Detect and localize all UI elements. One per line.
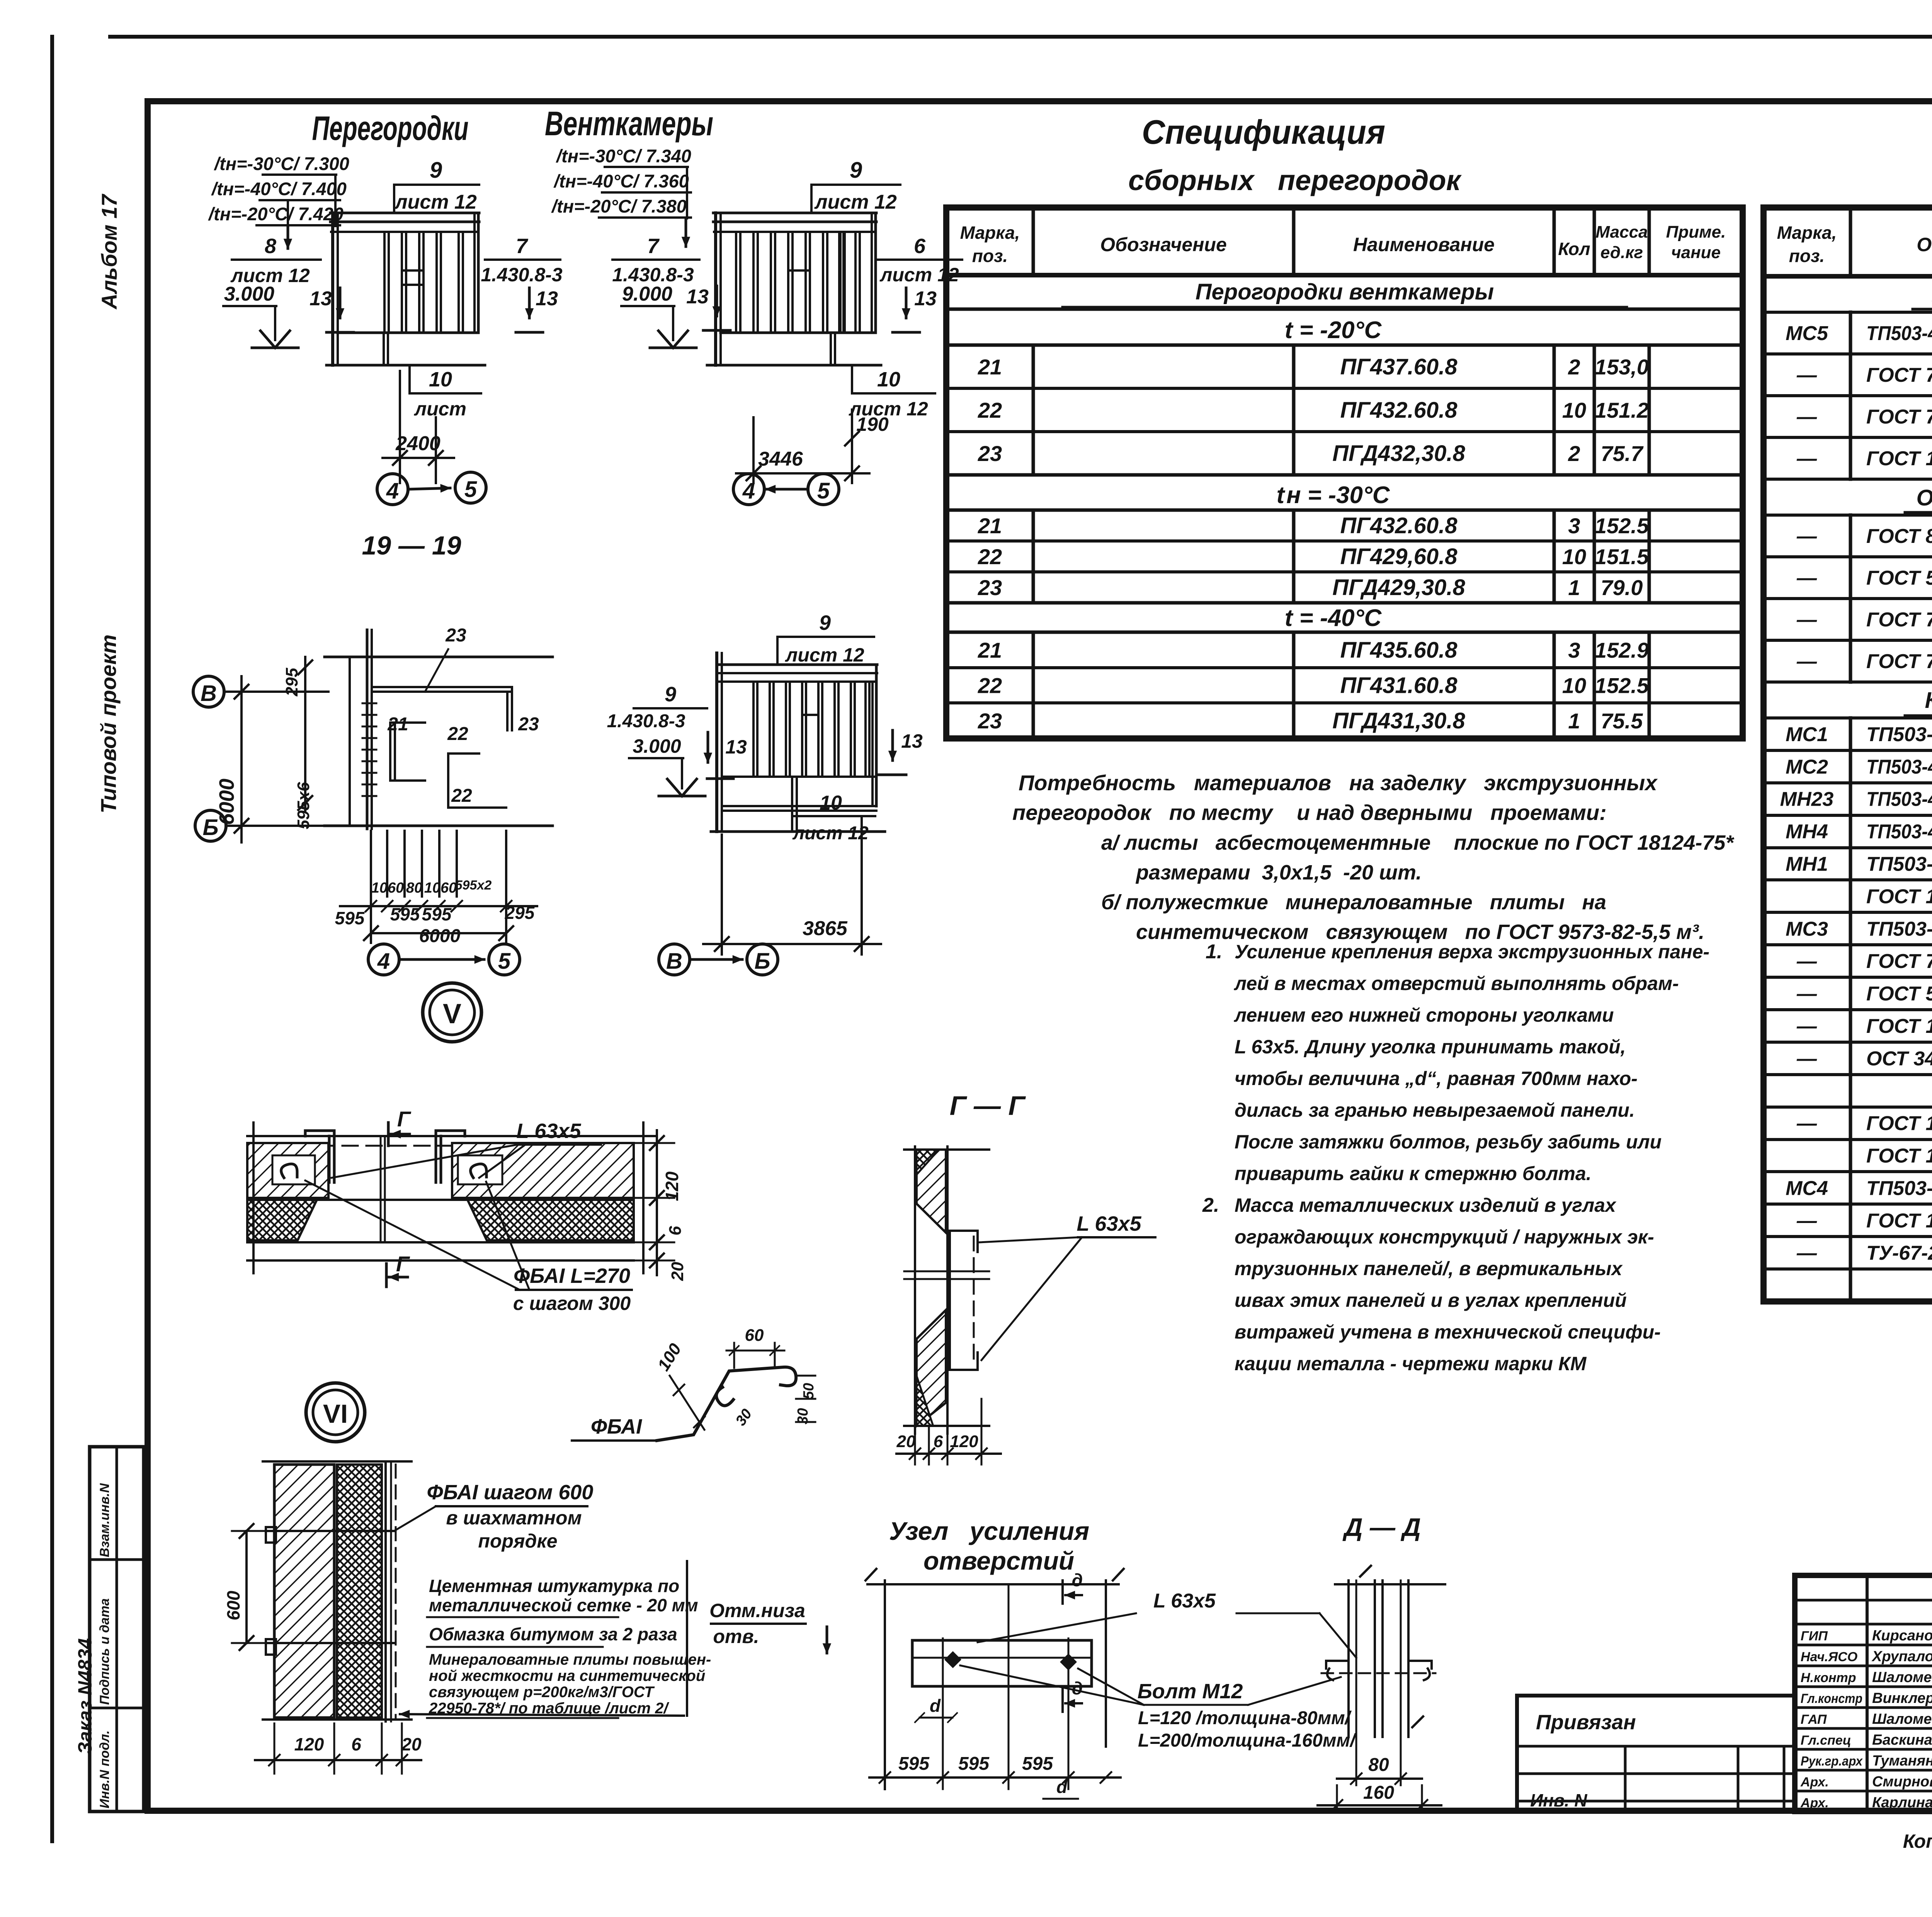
svg-text:ТП503-4-45.87-КЖИ-010-01: ТП503-4-45.87-КЖИ-010-01 (1866, 821, 1932, 843)
svg-text:/tн=-40°C/ 7.400: /tн=-40°C/ 7.400 (211, 179, 347, 199)
svg-text:Узел усиления: Узел усиления (889, 1517, 1089, 1545)
svg-text:3446: 3446 (758, 448, 803, 470)
svg-text:21: 21 (978, 514, 1002, 538)
svg-text:120: 120 (294, 1734, 324, 1754)
svg-text:1.: 1. (1206, 941, 1222, 963)
svg-text:Приме.: Приме. (1666, 223, 1726, 242)
svg-text:ПГД432,30.8: ПГД432,30.8 (1332, 441, 1465, 466)
svg-text:Марка,: Марка, (960, 223, 1020, 243)
svg-text:120: 120 (950, 1432, 978, 1451)
svg-text:ГОСТ 11371-78: ГОСТ 11371-78 (1866, 1015, 1932, 1038)
level 3.000 (223, 283, 298, 348)
svg-text:2: 2 (1568, 355, 1580, 379)
svg-text:—: — (1796, 609, 1817, 631)
wall section: panel with hatches (263, 1461, 412, 1721)
svg-text:—: — (1796, 1209, 1817, 1232)
mark 13 left (310, 287, 354, 332)
svg-text:отв.: отв. (713, 1626, 759, 1647)
svg-text:7: 7 (647, 235, 660, 258)
19-19 right elevation: level marks (607, 683, 747, 796)
19-19 right elevation: body (711, 653, 885, 832)
svg-text:13: 13 (725, 736, 747, 758)
svg-text:4: 4 (742, 478, 755, 503)
19-19 right elevation: dim 3865 (703, 816, 881, 954)
svg-text:Кирсанов: Кирсанов (1872, 1628, 1932, 1644)
svg-text:После затяжки болтов, резьб: После затяжки болтов, резьбу забить или (1235, 1131, 1662, 1153)
svg-text:23: 23 (445, 625, 466, 646)
svg-text:Заказ N4834: Заказ N4834 (74, 1638, 96, 1754)
svg-text:ГОСТ 1144-80*: ГОСТ 1144-80* (1866, 1112, 1932, 1135)
svg-text:9: 9 (850, 158, 862, 183)
svg-text:ТП503-4-45.87-КЖИ-280: ТП503-4-45.87-КЖИ-280 (1866, 1177, 1932, 1199)
svg-text:ГИП: ГИП (1801, 1629, 1828, 1643)
svg-text:ед.кг: ед.кг (1600, 243, 1643, 262)
plan: lower dimension lines (335, 831, 537, 946)
svg-text:3: 3 (1568, 514, 1580, 538)
svg-text:2: 2 (1568, 441, 1580, 466)
svg-text:ТП503-4-45.87-КЖИ-280-01: ТП503-4-45.87-КЖИ-280-01 (1866, 322, 1932, 345)
svg-text:1: 1 (1568, 575, 1580, 600)
svg-text:дилась за гранью невырезае: дилась за гранью невырезаемой панели. (1235, 1099, 1635, 1121)
svg-text:L 63х5: L 63х5 (516, 1119, 581, 1143)
svg-text:152.5: 152.5 (1595, 514, 1649, 538)
svg-text:ПГ431.60.8: ПГ431.60.8 (1340, 673, 1458, 698)
svg-text:6000: 6000 (215, 779, 238, 825)
svg-text:трузионных панелей/, в ве: трузионных панелей/, в вертикальных (1235, 1258, 1623, 1279)
svg-text:ГОСТ 1144-80*: ГОСТ 1144-80* (1866, 1145, 1932, 1167)
detail mark V (423, 983, 481, 1042)
leader Болт М12 (960, 1665, 1341, 1705)
svg-text:витражей учтена в техническ: витражей учтена в технической специфи- (1235, 1321, 1661, 1343)
svg-text:595: 595 (335, 908, 365, 928)
svg-text:8: 8 (265, 235, 276, 258)
svg-text:д: д (1072, 1570, 1083, 1590)
svg-text:металлической сетке - 20 мм: металлической сетке - 20 мм (429, 1595, 698, 1615)
svg-text:153,0: 153,0 (1595, 355, 1649, 379)
wall section: dim 600 (223, 1524, 270, 1650)
svg-text:L 63х5: L 63х5 (1077, 1212, 1141, 1235)
label ФБАI L=270 с шагом 300 (305, 1180, 632, 1314)
svg-text:75.5: 75.5 (1601, 709, 1643, 733)
svg-text:ГОСТ 7798-70*: ГОСТ 7798-70* (1866, 609, 1932, 631)
svg-text:13: 13 (536, 287, 558, 310)
svg-text:Обозначение: Обозначение (1917, 234, 1932, 255)
svg-text:10: 10 (877, 368, 900, 391)
svg-text:L=120 /толщина-80мм/: L=120 /толщина-80мм/ (1138, 1708, 1352, 1728)
title block: signatures (1800, 1628, 1932, 1811)
svg-text:ГОСТ 5915-70*: ГОСТ 5915-70* (1866, 983, 1932, 1005)
svg-text:Венткамеры: Венткамеры (545, 104, 713, 143)
svg-text:МС1: МС1 (1786, 723, 1828, 746)
svg-text:9: 9 (665, 683, 676, 706)
svg-text:Хрупало: Хрупало (1871, 1648, 1932, 1665)
svg-text:ФБАI шагом 600: ФБАI шагом 600 (427, 1481, 594, 1504)
axis 4 and 5 (elev 1) (377, 472, 486, 505)
numbered notes 1 and 2 (1202, 941, 1709, 1374)
svg-text:—: — (1796, 364, 1817, 386)
svg-text:В: В (666, 949, 682, 974)
svg-text:Обрамление отверстий: Обрамление отверстий (1917, 485, 1932, 510)
svg-text:/tн=-20°C/ 7.380: /tн=-20°C/ 7.380 (551, 196, 687, 216)
svg-text:связующем р=200кг/м3/ГОСТ: связующем р=200кг/м3/ГОСТ (429, 1684, 655, 1701)
19-19 right elevation: 10 / лист 12 label (792, 792, 875, 844)
svg-text:Обозначение: Обозначение (1100, 234, 1227, 255)
svg-text:595х6: 595х6 (294, 782, 313, 829)
svg-text:Альбом 17: Альбом 17 (97, 193, 121, 310)
svg-text:лист 12: лист 12 (394, 191, 477, 213)
svg-text:ГОСТ 8509-72*: ГОСТ 8509-72* (1866, 525, 1932, 548)
svg-text:160: 160 (1363, 1783, 1394, 1803)
svg-text:ГОСТ 5781-82*: ГОСТ 5781-82* (1866, 567, 1932, 589)
svg-text:чтобы величина „d“, равная: чтобы величина „d“, равная 700мм нахо- (1235, 1068, 1638, 1089)
section mark Г (top) (388, 1107, 412, 1146)
узел drawing: д section marks (1063, 1570, 1083, 1712)
joint section: inner middle vertical (381, 1136, 385, 1242)
svg-text:ТП503-4-45.87-КЖИ-200-01: ТП503-4-45.87-КЖИ-200-01 (1866, 788, 1932, 811)
svg-text:кации металла - чертежи ма: кации металла - чертежи марки КМ (1235, 1353, 1587, 1374)
note L=120 L=200 (1138, 1708, 1357, 1751)
svg-text:Привязан: Привязан (1536, 1711, 1636, 1734)
svg-text:—: — (1796, 447, 1817, 470)
svg-text:595: 595 (1022, 1754, 1053, 1774)
leader L 63x5 to Д-Д (978, 1590, 1356, 1658)
notes: Потребность материалов (1012, 771, 1735, 944)
svg-text:ФБАI L=270: ФБАI L=270 (514, 1264, 630, 1288)
svg-text:4: 4 (377, 949, 390, 974)
svg-text:Г: Г (396, 1252, 410, 1276)
svg-text:3.000: 3.000 (633, 735, 681, 757)
svg-text:ГОСТ 19772-74*: ГОСТ 19772-74* (1866, 885, 1932, 908)
elevation Венткамеры: wall panel (707, 213, 881, 365)
svg-text:ГОСТ 7798-70*: ГОСТ 7798-70* (1866, 406, 1932, 428)
svg-text:лист: лист (414, 398, 466, 420)
svg-text:75.7: 75.7 (1601, 441, 1644, 466)
svg-text:ГОСТ 19903-74*: ГОСТ 19903-74* (1866, 447, 1932, 470)
svg-text:Марка,: Марка, (1777, 223, 1837, 243)
svg-text:/tн=-30°C/ 7.340: /tн=-30°C/ 7.340 (556, 146, 691, 166)
svg-text:Потребность материалов на: Потребность материалов на заделку экстру… (1019, 771, 1658, 795)
svg-text:Рук.гр.арх: Рук.гр.арх (1801, 1754, 1863, 1769)
svg-text:Инв.N подл.: Инв.N подл. (97, 1730, 112, 1808)
svg-text:лист 12: лист 12 (879, 264, 959, 286)
svg-text:ГАП: ГАП (1801, 1712, 1827, 1727)
svg-text:100: 100 (654, 1340, 685, 1374)
svg-text:L 63х5. Длину уголка приним: L 63х5. Длину уголка принимать такой, (1235, 1036, 1626, 1058)
svg-text:Шаломеев: Шаломеев (1872, 1669, 1932, 1686)
svg-text:/tн=-30°C/ 7.300: /tн=-30°C/ 7.300 (214, 153, 349, 174)
svg-text:600: 600 (223, 1590, 243, 1620)
svg-text:20: 20 (401, 1734, 422, 1754)
svg-text:—: — (1796, 525, 1817, 548)
level marks table (Венткамеры) (551, 146, 691, 247)
svg-text:Типовой проект: Типовой проект (96, 634, 121, 813)
svg-text:10: 10 (1562, 674, 1586, 698)
svg-text:t = -20°C: t = -20°C (1285, 317, 1382, 344)
joint section: mineral wool band (cross hatch) (247, 1200, 634, 1240)
svg-text:22: 22 (978, 544, 1002, 569)
svg-text:Арх.: Арх. (1800, 1796, 1829, 1810)
svg-text:1.430.8-3: 1.430.8-3 (612, 264, 694, 286)
svg-text:ОСТ 34-13-016-77: ОСТ 34-13-016-77 (1866, 1048, 1932, 1070)
svg-text:МН23: МН23 (1780, 788, 1834, 811)
узел drawing: beam with bolts (912, 1640, 1092, 1686)
svg-text:d: d (930, 1696, 941, 1716)
svg-text:б/ полужесткие минераловатны: б/ полужесткие минераловатные плиты на (1101, 891, 1606, 914)
svg-text:10: 10 (1562, 398, 1586, 422)
svg-text:23: 23 (978, 709, 1002, 733)
svg-text:595: 595 (898, 1754, 930, 1774)
svg-text:ТУ-67-269-79: ТУ-67-269-79 (1866, 1242, 1932, 1264)
svg-text:1.430.8-3: 1.430.8-3 (481, 264, 562, 286)
svg-text:приварить гайки к стержню: приварить гайки к стержню болта. (1235, 1163, 1592, 1184)
svg-text:Винклер: Винклер (1872, 1690, 1932, 1706)
svg-text:1.430.8-3: 1.430.8-3 (607, 711, 685, 731)
svg-text:1060: 1060 (371, 880, 404, 896)
svg-text:23: 23 (978, 575, 1002, 600)
svg-text:Перогородки венткамеры: Перогородки венткамеры (1196, 279, 1494, 304)
svg-text:VI: VI (323, 1399, 348, 1429)
plan: walls (325, 630, 553, 829)
section Г-Г body (904, 1146, 989, 1434)
svg-text:МС5: МС5 (1786, 322, 1828, 345)
dim 190 (elev 2) (845, 410, 889, 483)
label 10 / лист 12 below (elev 2) (849, 365, 935, 420)
svg-text:Цементная штукатурка по: Цементная штукатурка по (429, 1576, 679, 1596)
svg-text:Кол: Кол (1558, 239, 1590, 259)
svg-text:Обмазка битумом за 2 раза: Обмазка битумом за 2 раза (429, 1624, 677, 1644)
svg-text:ГОСТ 7798-70*: ГОСТ 7798-70* (1866, 950, 1932, 973)
svg-text:595х2: 595х2 (455, 878, 492, 893)
svg-text:с шагом 300: с шагом 300 (513, 1293, 631, 1314)
svg-text:23: 23 (978, 441, 1002, 466)
label 7 / 1.430.8-3 left (elev 2) (612, 235, 699, 286)
svg-text:/tн=-20°C/ 7.420: /tн=-20°C/ 7.420 (208, 204, 344, 224)
svg-text:21: 21 (978, 638, 1002, 662)
svg-text:Отм.низа: Отм.низа (709, 1600, 805, 1621)
svg-text:295: 295 (282, 668, 301, 697)
svg-text:а/ листы асбестоцементные: а/ листы асбестоцементные плоские по ГОС… (1101, 831, 1735, 854)
svg-text:—: — (1796, 1048, 1817, 1070)
axis 4 and 5 (elev 2) (733, 474, 839, 505)
svg-text:порядке: порядке (478, 1530, 557, 1552)
svg-text:13: 13 (914, 287, 937, 310)
привязан box (1517, 1696, 1795, 1812)
spec table: изделия (1764, 208, 1932, 1301)
svg-text:МС2: МС2 (1786, 756, 1828, 778)
svg-text:3.000: 3.000 (224, 283, 274, 305)
svg-text:поз.: поз. (972, 246, 1008, 266)
label 8 / лист 12 left (230, 235, 321, 286)
svg-text:ГОСТ 7798-70*: ГОСТ 7798-70* (1866, 650, 1932, 673)
svg-text:ТП503-4-45.87-КЖИ-260-01: ТП503-4-45.87-КЖИ-260-01 (1866, 756, 1932, 778)
svg-text:151.2: 151.2 (1595, 398, 1649, 422)
узел drawing: d labels (915, 1696, 1078, 1799)
svg-text:6000: 6000 (419, 926, 461, 946)
svg-text:Гл.спец: Гл.спец (1801, 1733, 1851, 1748)
Д-Д flanges and bolt (1321, 1661, 1435, 1680)
plan: axis Б (195, 810, 328, 841)
svg-text:L 63х5: L 63х5 (1153, 1590, 1216, 1612)
svg-text:ТП503-4-45.87-КЖИ-260: ТП503-4-45.87-КЖИ-260 (1866, 723, 1932, 746)
svg-text:1: 1 (1568, 709, 1580, 733)
svg-text:152.9: 152.9 (1595, 638, 1649, 662)
svg-text:Копировал: Копировал (1903, 1830, 1932, 1852)
svg-text:перегородок по месту и на: перегородок по месту и над дверными прое… (1012, 800, 1607, 825)
plan: axis В (193, 676, 328, 707)
svg-text:t = -40°C: t = -40°C (1285, 605, 1382, 631)
dim 2400 (383, 371, 454, 483)
wall section: anchor rows (266, 1527, 394, 1655)
svg-text:10: 10 (1562, 544, 1586, 569)
svg-text:синтетическом связующем по: синтетическом связующем по ГОСТ 9573-82-… (1136, 920, 1704, 944)
svg-text:190: 190 (856, 413, 889, 435)
svg-text:В: В (201, 681, 217, 706)
svg-text:1060: 1060 (424, 880, 457, 896)
svg-text:9: 9 (430, 158, 442, 183)
svg-text:д: д (1072, 1678, 1083, 1698)
svg-text:50: 50 (801, 1383, 817, 1399)
svg-text:22: 22 (451, 786, 472, 806)
svg-text:6: 6 (914, 235, 926, 258)
svg-text:/tн=-40°C/ 7.360: /tн=-40°C/ 7.360 (553, 171, 689, 191)
svg-text:Н.контр: Н.контр (1801, 1670, 1856, 1685)
svg-text:ТП503-4-45.87-КЖИ-010: ТП503-4-45.87-КЖИ-010 (1866, 853, 1932, 876)
svg-text:ПГ435.60.8: ПГ435.60.8 (1340, 638, 1458, 663)
elevation Перегородки: wall panel (327, 213, 485, 365)
svg-text:80: 80 (406, 880, 422, 896)
svg-text:79.0: 79.0 (1601, 575, 1643, 600)
svg-text:Болт М12: Болт М12 (1138, 1680, 1243, 1703)
svg-text:МН4: МН4 (1786, 821, 1828, 843)
svg-text:ограждающих конструкций /: ограждающих конструкций / наружных эк- (1235, 1226, 1654, 1248)
label 6 / лист 12 right (elev 2) (878, 235, 962, 286)
svg-text:—: — (1796, 406, 1817, 428)
svg-text:—: — (1796, 650, 1817, 673)
svg-text:Масса металлических издели: Масса металлических изделий в углах (1235, 1194, 1617, 1216)
joint section: top line (247, 1136, 657, 1146)
title: Узел усиления отверстий (889, 1517, 1089, 1575)
svg-text:23: 23 (518, 714, 539, 735)
label 9 / лист 12 above (elev 2) (811, 158, 900, 213)
joint section: right dims 120 6 20 (634, 1130, 687, 1281)
svg-text:9.000: 9.000 (622, 283, 672, 305)
plan: stud ticks (362, 703, 376, 796)
level marks table (Перегородки) (208, 153, 349, 248)
svg-text:151.5: 151.5 (1595, 544, 1649, 569)
svg-text:—: — (1796, 1015, 1817, 1038)
svg-text:чание: чание (1671, 243, 1721, 262)
callout Отм.низа отв. (709, 1600, 827, 1653)
joint section: extruded panels (diagonal hatch) (247, 1143, 634, 1198)
svg-text:лист 12: лист 12 (814, 191, 897, 213)
svg-text:3865: 3865 (803, 917, 848, 940)
svg-text:Спецификация: Спецификация (1142, 113, 1385, 151)
svg-text:5: 5 (498, 949, 511, 974)
mark 13 right (elev 2) (893, 287, 937, 332)
svg-text:ПГД429,30.8: ПГД429,30.8 (1332, 575, 1465, 600)
svg-text:V: V (443, 998, 461, 1029)
svg-text:Смирнова: Смирнова (1872, 1774, 1932, 1790)
detail mark VI (306, 1383, 365, 1442)
svg-text:Баскина: Баскина (1872, 1732, 1932, 1748)
svg-text:Гл.констр: Гл.констр (1801, 1691, 1862, 1706)
svg-text:60: 60 (745, 1326, 764, 1345)
19-19 right elevation: 9 / лист 12 box above (777, 611, 874, 666)
svg-text:Карлина: Карлина (1872, 1795, 1932, 1811)
svg-text:ной жесткости на синтетическ: ной жесткости на синтетической (429, 1667, 705, 1684)
svg-text:20: 20 (896, 1432, 916, 1451)
label L 63x5 (detail V) (332, 1119, 601, 1178)
svg-text:ПГ432.60.8: ПГ432.60.8 (1340, 398, 1458, 423)
svg-text:20: 20 (668, 1262, 687, 1281)
svg-text:t н = -30°C: t н = -30°C (1276, 482, 1390, 509)
svg-text:сборных перегородок: сборных перегородок (1128, 164, 1462, 196)
svg-text:22: 22 (978, 674, 1002, 698)
svg-text:13: 13 (901, 730, 923, 752)
Д-Д column section (1335, 1566, 1445, 1737)
svg-text:ГОСТ 7798-70*: ГОСТ 7798-70* (1866, 364, 1932, 386)
svg-text:ПГ432.60.8: ПГ432.60.8 (1340, 513, 1458, 538)
svg-text:Подпись и дата: Подпись и дата (97, 1598, 112, 1705)
svg-text:—: — (1796, 1112, 1817, 1135)
wall section: bottom dims 120 6 20 (255, 1723, 422, 1774)
svg-text:Б: Б (754, 949, 770, 974)
mark 13 right (516, 287, 558, 332)
label L 63x5 (Г-Г) (980, 1212, 1155, 1360)
svg-text:9: 9 (819, 611, 831, 634)
plan: vertical dim 6000 with 295 and 595x6 (215, 657, 313, 842)
callout: cement plaster noted lines (400, 1561, 711, 1718)
svg-text:поз.: поз. (1789, 246, 1825, 266)
svg-text:5: 5 (464, 477, 477, 502)
svg-text:Нач.ЯСО: Нач.ЯСО (1801, 1650, 1857, 1664)
копировал марченко (1903, 1830, 1932, 1852)
svg-text:Усиление крепления верха экс: Усиление крепления верха экструзионных п… (1235, 941, 1709, 963)
svg-text:L=200/толщина-160мм/: L=200/толщина-160мм/ (1138, 1730, 1357, 1751)
svg-text:—: — (1796, 1242, 1817, 1264)
svg-text:ФБАI: ФБАI (591, 1415, 642, 1438)
svg-text:лист 12: лист 12 (785, 644, 864, 666)
svg-text:10: 10 (820, 792, 842, 814)
svg-text:Взам.инв.N: Взам.инв.N (97, 1483, 112, 1557)
margin stamp boxes (90, 1447, 144, 1812)
svg-text:Наименование: Наименование (1353, 234, 1495, 255)
svg-text:Минераловатные плиты повышен-: Минераловатные плиты повышен- (429, 1651, 711, 1668)
spec table: сборные перегородки (946, 208, 1743, 738)
svg-text:13: 13 (686, 286, 709, 308)
svg-text:Шаломеев: Шаломеев (1872, 1711, 1932, 1727)
svg-text:в шахматном: в шахматном (446, 1507, 582, 1529)
svg-text:21: 21 (387, 714, 408, 735)
узел drawing: dim 595 595 595 (869, 1754, 1121, 1783)
dim 3446 (elev 2) (736, 417, 869, 483)
svg-text:2400: 2400 (395, 432, 440, 455)
title block frame (1795, 1575, 1932, 1812)
svg-text:МС3: МС3 (1786, 918, 1828, 940)
svg-text:10: 10 (429, 368, 452, 391)
svg-text:Масса: Масса (1595, 223, 1648, 242)
svg-text:ТП503-4-45.87-КЖИ-290: ТП503-4-45.87-КЖИ-290 (1866, 918, 1932, 940)
callout ФБАI шагом 600 (394, 1481, 593, 1552)
svg-text:размерами 3,0х1,5 -20 шт.: размерами 3,0х1,5 -20 шт. (1135, 861, 1422, 884)
mark 13 left (elev 2) (686, 286, 730, 330)
svg-text:22: 22 (978, 398, 1002, 422)
section mark Г (bottom) (386, 1252, 410, 1287)
svg-text:ПГ437.60.8: ПГ437.60.8 (1340, 354, 1458, 379)
label 9 / лист 12 above (394, 158, 479, 213)
joint section: connector plates (305, 1131, 465, 1182)
svg-text:—: — (1796, 950, 1817, 973)
